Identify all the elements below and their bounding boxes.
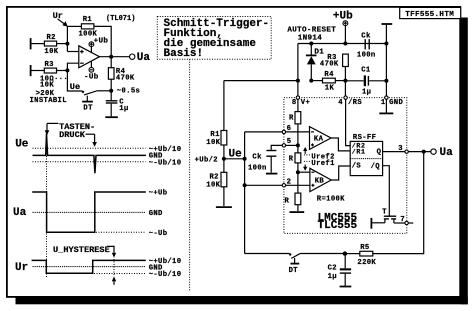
- switch DT actuator: [86, 96, 88, 101]
- wire pin2 left: [245, 184, 283, 186]
- svg-text:Ue: Ue: [15, 139, 29, 151]
- wire pin5 left to Ck: [271, 145, 282, 149]
- ground bar below C: [105, 116, 118, 118]
- svg-text:+Ub: +Ub: [333, 10, 353, 22]
- wire pin6 to KA-: [286, 131, 310, 133]
- svg-text:~+Ub: ~+Ub: [149, 190, 168, 198]
- flip-flop RS-FF box: [350, 141, 382, 175]
- wire +Ub rail: [298, 43, 387, 45]
- arrow 1 to spike: [47, 122, 59, 124]
- svg-text:Ur: Ur: [15, 262, 28, 274]
- wire R3 left: [31, 70, 45, 72]
- dotted level +Ub/10: [33, 147, 146, 149]
- svg-text:KA: KA: [314, 136, 324, 144]
- op-amp U1 triangle: [79, 46, 100, 68]
- wire pins2+6 vertical: [244, 132, 246, 254]
- node pin2 wire: [243, 183, 247, 187]
- plus sign inside: [80, 51, 84, 53]
- node rail/Ck/gnd line: [384, 42, 388, 46]
- Ue waveform trace: [33, 134, 147, 173]
- svg-text:/R1: /R1: [352, 148, 366, 155]
- wire /Q to transistor: [383, 166, 390, 216]
- dotted level -Ub/10: [33, 161, 146, 163]
- node R5/C2/DT: [343, 251, 347, 255]
- comparator KB: [310, 168, 331, 191]
- svg-text:470K: 470K: [116, 74, 135, 82]
- svg-text:C1: C1: [361, 67, 371, 75]
- wire +Ub down: [344, 26, 346, 44]
- node divider/KB-: [296, 170, 300, 174]
- wire T drain to pin7: [394, 222, 405, 224]
- arrowhead to node R1/R2: [62, 21, 67, 27]
- svg-text:RS-FF: RS-FF: [353, 134, 376, 142]
- resistor R4 1K: [311, 80, 322, 82]
- svg-text:10K: 10K: [40, 82, 54, 90]
- resistor R middle: [295, 153, 301, 163]
- svg-text:R5: R5: [360, 244, 369, 252]
- dotted hysteresis gap: [113, 259, 115, 276]
- resistor R3 470K: [343, 54, 349, 66]
- resistor R top: [295, 112, 301, 124]
- node junction R3 / -input: [65, 68, 69, 72]
- svg-text:/RS: /RS: [348, 99, 362, 107]
- diode D1: [310, 44, 312, 56]
- Uref2 annotation arrow up: [304, 151, 306, 154]
- svg-text:U_HYSTERESE: U_HYSTERESE: [53, 245, 110, 255]
- terminal Ua: [431, 149, 436, 154]
- svg-text:10K: 10K: [206, 182, 220, 190]
- node rail/D1: [309, 42, 313, 46]
- svg-text:INSTABIL: INSTABIL: [30, 97, 67, 105]
- node divider/pin5/KA+: [296, 143, 300, 147]
- gnd bar below C2: [340, 286, 352, 288]
- svg-text:1µ: 1µ: [328, 273, 337, 281]
- svg-text:R3: R3: [45, 61, 54, 69]
- dotted -Ub level: [96, 231, 146, 233]
- svg-text:1µ: 1µ: [119, 105, 128, 113]
- svg-text:GND: GND: [149, 210, 163, 218]
- resistor R4: [110, 57, 112, 68]
- terminal +Ub: [343, 21, 348, 26]
- capacitor Ck 100n (pin5): [266, 150, 276, 152]
- wire R3 right: [57, 70, 68, 72]
- svg-text:AUTO-RESET: AUTO-RESET: [287, 26, 336, 34]
- svg-text:~-Ub/10: ~-Ub/10: [149, 271, 182, 279]
- resistor R1 10K (divider): [221, 131, 227, 146]
- capacitor C2 1u: [344, 254, 346, 269]
- wire KB- from divider: [298, 171, 310, 173]
- wire down to pin1: [385, 81, 387, 96]
- svg-text:~-Ub: ~-Ub: [149, 230, 168, 238]
- wire node to pin4: [344, 81, 346, 96]
- svg-text:R1: R1: [210, 131, 220, 139]
- wire KA out to /R1: [331, 138, 350, 151]
- svg-text:7: 7: [400, 216, 405, 224]
- node R3/R4/pin4: [343, 79, 347, 83]
- svg-text:Basis!: Basis!: [164, 48, 204, 60]
- svg-text:+Ub: +Ub: [94, 37, 109, 45]
- svg-text:R2: R2: [210, 174, 219, 182]
- frame shadow bottom: [16, 297, 468, 304]
- svg-text:~0.5s: ~0.5s: [117, 88, 140, 96]
- svg-text:/Q: /Q: [371, 163, 381, 171]
- pin 7: [405, 221, 408, 224]
- frame shadow right: [461, 18, 468, 305]
- node Ue: [243, 157, 247, 161]
- wire op-amp output: [100, 56, 130, 58]
- svg-text:1µ: 1µ: [362, 89, 371, 97]
- resistor R3: [44, 68, 56, 73]
- svg-text:100n: 100n: [357, 52, 376, 60]
- wire Ub/2 node: [224, 158, 245, 160]
- switch DT actuator: [294, 258, 296, 263]
- pin 4: [344, 96, 347, 99]
- svg-text:GND: GND: [389, 99, 403, 107]
- svg-text:-Ub: -Ub: [84, 74, 99, 82]
- internal divider chain from pin8: [297, 99, 299, 111]
- wire pins2+6 down corner to DT: [245, 253, 290, 255]
- wire gnd line down: [385, 25, 387, 81]
- gnd bar divider R2: [216, 206, 232, 208]
- svg-text:V+: V+: [301, 99, 310, 107]
- svg-text:R=100K: R=100K: [317, 195, 345, 203]
- wire Ua node down to R5: [373, 152, 424, 254]
- dashed GND Ua: [33, 211, 146, 213]
- pin 2: [282, 184, 285, 187]
- svg-text:1K: 1K: [325, 84, 335, 92]
- svg-text:Uref1: Uref1: [311, 160, 335, 168]
- wire DT to node: [300, 253, 345, 255]
- svg-text:R: R: [289, 115, 294, 123]
- svg-text:DT: DT: [83, 105, 93, 113]
- svg-text:R2: R2: [47, 34, 56, 42]
- svg-text:10K: 10K: [206, 139, 220, 147]
- svg-text:1: 1: [381, 99, 386, 107]
- svg-text:R1: R1: [83, 16, 93, 24]
- wire -input: [67, 63, 78, 70]
- svg-text:Ua: Ua: [137, 52, 151, 64]
- Ur waveform trace: [32, 260, 146, 273]
- switch DT blade: [291, 253, 300, 258]
- wire branch corner down: [223, 81, 225, 131]
- pin 8: [296, 96, 299, 99]
- Uref1 annotation arrow down: [304, 160, 310, 162]
- svg-text:3: 3: [398, 145, 403, 153]
- arrow 2 to spike: [86, 133, 95, 135]
- hysteresis bracket: [107, 246, 114, 252]
- terminal bar R3 input: [30, 65, 32, 76]
- terminal bar R2 input: [30, 38, 32, 49]
- internal gnd bar divider: [290, 211, 305, 213]
- wire +input: [67, 51, 78, 53]
- terminal Ua: [130, 54, 135, 59]
- wire Q to pin3: [383, 151, 405, 153]
- resistor R5 220K: [360, 251, 373, 256]
- svg-text:KB: KB: [315, 178, 325, 186]
- wire Ur node vertical: [66, 26, 68, 51]
- wire R1 right to feedback corner: [94, 26, 111, 56]
- svg-text:Ue: Ue: [229, 148, 243, 160]
- wire Ue node down: [67, 70, 82, 91]
- wire branch left: [224, 80, 298, 82]
- svg-text:Ue: Ue: [70, 82, 80, 92]
- node C1/gnd line: [384, 79, 388, 83]
- svg-text:220K: 220K: [357, 259, 376, 267]
- wire pin2 to KB+: [286, 184, 310, 186]
- wire R2 left: [31, 43, 45, 45]
- svg-text:(TL071): (TL071): [106, 15, 135, 23]
- wire rail corner down to pin8: [297, 44, 299, 97]
- wire pin5 to chain node: [286, 144, 298, 146]
- svg-text:R: R: [289, 156, 294, 164]
- svg-text:4: 4: [338, 99, 343, 107]
- svg-text:Ck: Ck: [252, 153, 262, 161]
- wire R1 left: [67, 25, 81, 27]
- dotted -Ub/10 level: [94, 273, 146, 275]
- node rail/+Ub/R3: [343, 42, 347, 46]
- node junction R2 / +input: [65, 42, 69, 46]
- resistor R bottom: [295, 193, 301, 205]
- node pin8 branch: [296, 79, 300, 83]
- svg-text:10K: 10K: [44, 48, 58, 56]
- svg-text:Ua: Ua: [440, 147, 454, 159]
- terminal bar T source: [370, 218, 372, 229]
- wire pin4 down to /R2: [346, 99, 351, 145]
- node output junction: [109, 55, 113, 59]
- svg-text:Q: Q: [377, 149, 382, 157]
- pin 5: [282, 144, 285, 147]
- svg-text:~-Ub/10: ~-Ub/10: [149, 159, 182, 167]
- wire pin3 to Ua: [408, 151, 431, 153]
- wire pin1 to internal gnd: [385, 99, 387, 112]
- svg-text:D1: D1: [314, 49, 324, 57]
- svg-text:R4: R4: [324, 71, 334, 79]
- comparator KA: [310, 127, 332, 150]
- dashed GND Ur: [33, 266, 146, 268]
- svg-text:T: T: [382, 209, 387, 217]
- minus sign inside: [80, 62, 84, 64]
- switch DT blade: [84, 91, 97, 95]
- pin 1: [385, 96, 388, 99]
- svg-text:1N914: 1N914: [298, 34, 323, 42]
- svg-text:DRUCK: DRUCK: [59, 130, 86, 140]
- node divider Ub/2: [222, 157, 226, 161]
- hysteresis up arrow: [112, 276, 116, 281]
- wire pin7 stub: [408, 222, 413, 224]
- -Ub supply terminal: [89, 67, 94, 72]
- resistor R1: [81, 24, 94, 29]
- wire DT to C node: [97, 90, 112, 92]
- svg-text:TLC555: TLC555: [318, 220, 358, 232]
- resistor R2: [44, 41, 56, 46]
- svg-text:C2: C2: [328, 264, 337, 272]
- gnd terminal bar top right: [382, 23, 393, 25]
- svg-text:TFF555.HTM: TFF555.HTM: [405, 11, 454, 19]
- switch DT contact dot: [82, 91, 84, 93]
- node junction R4/C/DT: [109, 89, 113, 93]
- svg-text:Ua: Ua: [13, 207, 27, 219]
- svg-text:DT: DT: [289, 267, 299, 275]
- resistor R2 10K (divider): [221, 172, 227, 187]
- Ua waveform trace: [32, 192, 146, 232]
- +Ub supply terminal: [89, 42, 94, 47]
- svg-text:8: 8: [292, 99, 297, 107]
- divider dotted line: [189, 59, 191, 290]
- switch DT contact dot: [289, 253, 291, 255]
- wire KB out to /S: [331, 166, 350, 180]
- node D1/R4: [309, 79, 313, 83]
- pin 6: [282, 130, 285, 133]
- svg-text:/S: /S: [352, 163, 362, 171]
- wire R2 right: [57, 43, 68, 45]
- svg-text:100n: 100n: [248, 165, 267, 173]
- svg-text:+Ub/2: +Ub/2: [195, 156, 218, 164]
- pin 3: [405, 150, 408, 153]
- node Ua/R5: [422, 150, 426, 154]
- svg-text:470K: 470K: [320, 61, 339, 69]
- title box TFF555.HTM: [400, 7, 461, 18]
- dotted timing line: [46, 136, 48, 278]
- wire pin6 left: [245, 131, 283, 133]
- wire Ur arrow line: [58, 19, 65, 24]
- capacitor C: [106, 100, 118, 102]
- svg-text:R: R: [285, 198, 290, 206]
